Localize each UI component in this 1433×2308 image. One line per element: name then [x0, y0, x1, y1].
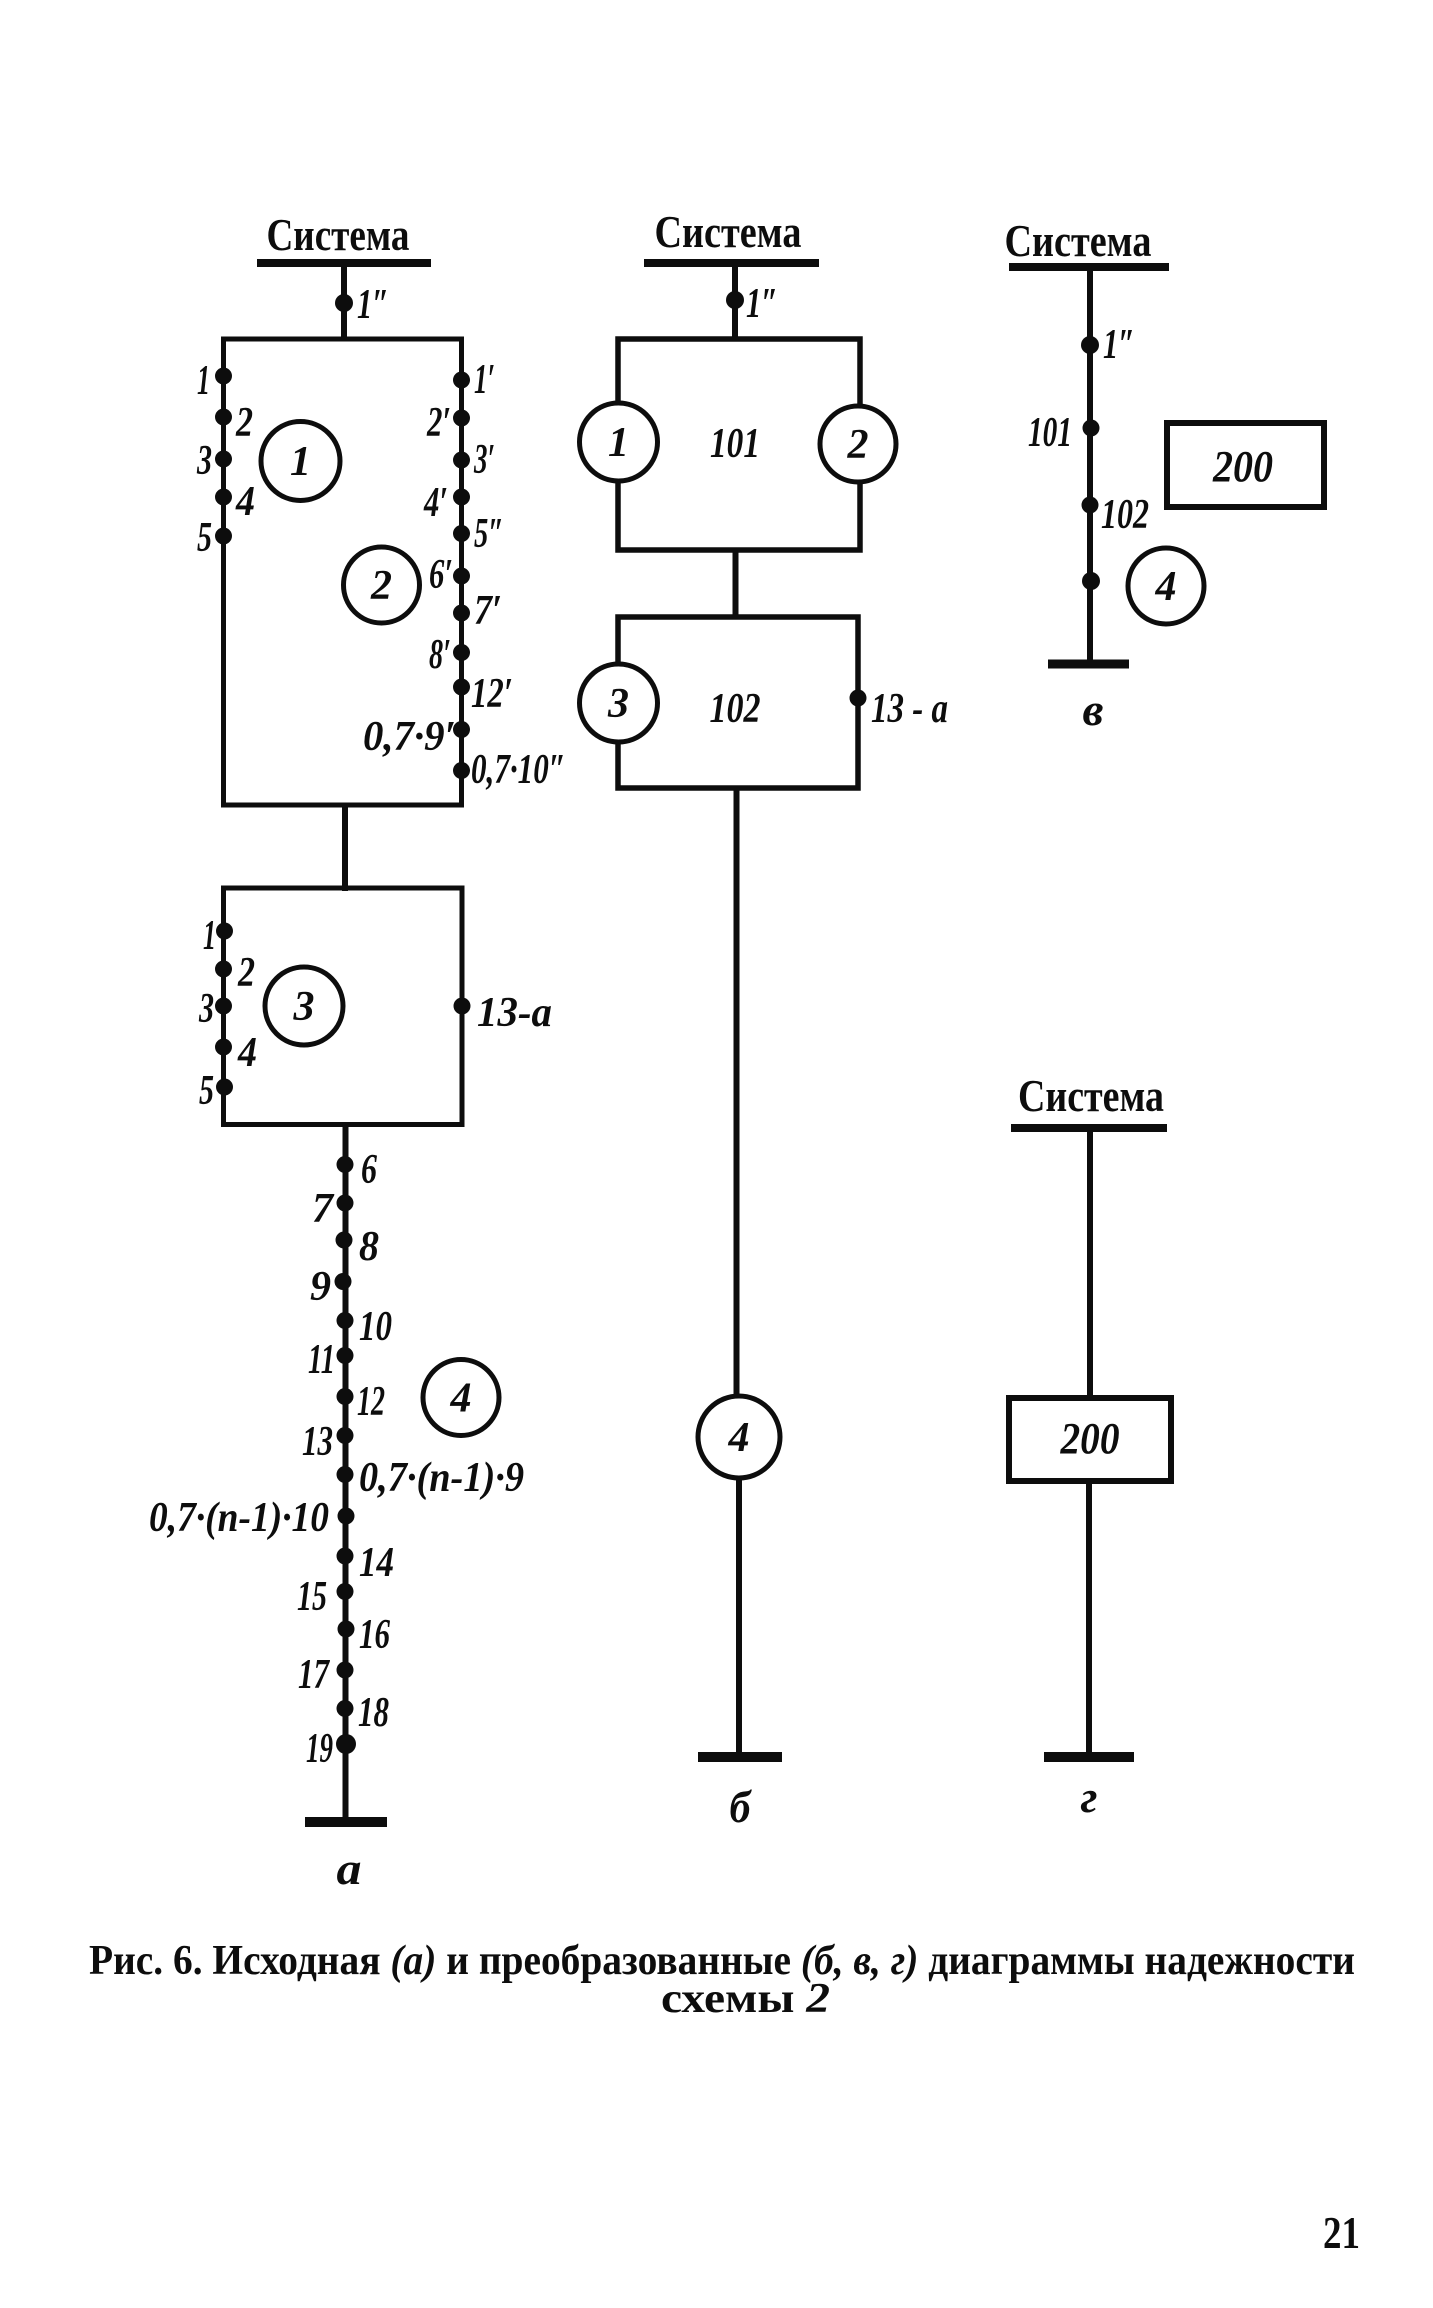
- circle 4 (б): [698, 1396, 780, 1478]
- node at circle 4 (в): [1082, 572, 1100, 590]
- node 3 left (а): [196, 438, 232, 484]
- block 200 box (г): [1009, 1398, 1171, 1481]
- wire upper block to lower block (а): [342, 805, 348, 891]
- svg-text:4: 4: [1155, 564, 1177, 610]
- svg-text:18: 18: [358, 1690, 389, 1736]
- node 1″ (б): [726, 281, 778, 327]
- ground (г): [1044, 1752, 1134, 1762]
- ground (в): [1048, 660, 1129, 669]
- circle 3 (б): [580, 664, 658, 742]
- svg-text:102: 102: [710, 686, 761, 732]
- node 7′ (а): [453, 588, 502, 634]
- svg-text:схемы 2: схемы 2: [661, 1976, 830, 2022]
- svg-text:4: 4: [237, 1030, 257, 1076]
- node 0,7·10″ (а): [453, 747, 566, 793]
- svg-text:0,7·(n-1)·10: 0,7·(n-1)·10: [149, 1495, 329, 1541]
- svg-text:200: 200: [1212, 442, 1273, 491]
- node 17 (а): [298, 1652, 354, 1698]
- svg-text:200: 200: [1060, 1414, 1120, 1463]
- wire bus to ground (в): [1087, 267, 1093, 664]
- node 8 (а): [336, 1224, 380, 1270]
- node 5″ (а): [453, 511, 504, 557]
- node 1 lower left (а): [203, 913, 233, 959]
- svg-text:Система: Система: [267, 210, 410, 260]
- node 6′ (а): [429, 552, 470, 598]
- svg-text:101: 101: [1028, 410, 1072, 456]
- svg-text:Система: Система: [1018, 1071, 1164, 1121]
- node 13-а (а): [454, 990, 553, 1036]
- svg-text:4′: 4′: [423, 480, 448, 526]
- node 5 left (а): [197, 515, 232, 561]
- node 13-а (б): [850, 686, 949, 732]
- wire circle 4 to ground (б): [736, 1477, 742, 1757]
- svg-text:4: 4: [235, 479, 255, 525]
- svg-text:1″: 1″: [1103, 322, 1135, 368]
- busbar Система (diagram г): [1011, 1124, 1167, 1132]
- node 0,7·(n-1)·10 (а): [149, 1495, 355, 1541]
- svg-text:1′: 1′: [474, 357, 495, 403]
- node 1 left (а): [197, 358, 232, 404]
- svg-text:101: 101: [710, 421, 760, 467]
- lower block box (а): [224, 888, 463, 1125]
- wire block 200 to ground (г): [1086, 1481, 1092, 1757]
- svg-text:11: 11: [308, 1337, 335, 1383]
- node 4 lower left (а): [215, 1030, 257, 1076]
- node 9 (а): [310, 1264, 352, 1310]
- node 8′ (а): [429, 632, 470, 678]
- svg-text:17: 17: [298, 1652, 330, 1698]
- svg-text:3: 3: [293, 984, 315, 1030]
- svg-text:Система: Система: [655, 207, 802, 257]
- svg-text:6: 6: [361, 1147, 377, 1193]
- node 3 lower left (а): [198, 986, 232, 1032]
- upper block box (а): [224, 339, 462, 805]
- svg-text:16: 16: [359, 1612, 390, 1658]
- ground (б): [698, 1752, 782, 1762]
- svg-text:3′: 3′: [473, 437, 495, 483]
- svg-text:13-а: 13-а: [477, 990, 552, 1036]
- svg-text:2: 2: [370, 563, 392, 609]
- svg-text:1: 1: [203, 913, 216, 959]
- svg-text:13 - а: 13 - а: [871, 686, 948, 732]
- node 12′ (а): [453, 671, 513, 717]
- node 12 (а): [337, 1379, 386, 1425]
- node 101 (в): [1028, 410, 1100, 456]
- svg-text:8′: 8′: [429, 632, 451, 678]
- node 3′ (а): [453, 437, 495, 483]
- node 2 lower left (а): [215, 950, 255, 996]
- svg-text:8: 8: [359, 1224, 379, 1270]
- svg-text:9: 9: [310, 1264, 331, 1310]
- node 0,7·9′ (а): [363, 714, 470, 760]
- busbar Система (diagram б): [644, 259, 819, 267]
- node 10 (а): [337, 1304, 393, 1350]
- node 2′ (а): [426, 400, 470, 446]
- svg-text:7: 7: [312, 1186, 335, 1232]
- wire bus to block 101 (б): [732, 263, 738, 341]
- svg-text:12′: 12′: [471, 671, 513, 717]
- svg-text:5: 5: [199, 1068, 214, 1114]
- circle 2 (а): [344, 547, 420, 623]
- svg-text:1″: 1″: [357, 282, 389, 328]
- svg-text:3: 3: [198, 986, 214, 1032]
- wire bus to block 200 (г): [1087, 1128, 1093, 1400]
- svg-text:3: 3: [196, 438, 212, 484]
- svg-text:19: 19: [306, 1726, 333, 1772]
- svg-text:12: 12: [357, 1379, 385, 1425]
- svg-text:0,7·10″: 0,7·10″: [471, 747, 566, 793]
- svg-text:2: 2: [237, 950, 255, 996]
- svg-text:7′: 7′: [474, 588, 502, 634]
- svg-text:1″: 1″: [746, 281, 778, 327]
- svg-text:1: 1: [197, 358, 210, 404]
- circle 3 (а): [265, 967, 343, 1045]
- node 4′ (а): [423, 480, 470, 526]
- svg-text:0,7·(n-1)·9: 0,7·(n-1)·9: [359, 1455, 524, 1501]
- block 101 box (б): [618, 339, 860, 550]
- circle 1 (б): [580, 403, 658, 481]
- wire block 102 to circle 4 (б): [734, 788, 740, 1399]
- svg-text:1: 1: [608, 420, 629, 466]
- node 16 (а): [338, 1612, 391, 1658]
- circle 1 (а): [261, 422, 340, 501]
- svg-text:2′: 2′: [426, 400, 451, 446]
- svg-text:10: 10: [359, 1304, 392, 1350]
- svg-text:14: 14: [359, 1540, 394, 1586]
- node 102 (в): [1082, 492, 1150, 538]
- svg-text:21: 21: [1323, 2207, 1360, 2258]
- node 7 (а): [312, 1186, 354, 1232]
- node 1″ (в): [1081, 322, 1135, 368]
- svg-text:3: 3: [607, 681, 629, 727]
- block 102 box (б): [618, 617, 858, 788]
- svg-text:4: 4: [728, 1415, 750, 1461]
- svg-text:102: 102: [1101, 492, 1149, 538]
- node 11 (а): [308, 1337, 354, 1383]
- busbar Система (diagram а): [257, 259, 431, 267]
- node 4 left (а): [215, 479, 255, 525]
- node 14 (а): [337, 1540, 395, 1586]
- block 200 box (в): [1167, 423, 1324, 507]
- svg-text:г: г: [1081, 1771, 1098, 1822]
- node 18 (а): [337, 1690, 390, 1736]
- svg-text:а: а: [337, 1843, 362, 1894]
- node 6 (а): [337, 1147, 378, 1193]
- svg-text:0,7·9′: 0,7·9′: [363, 714, 456, 760]
- node 19 (а): [306, 1726, 356, 1772]
- circle 2 (б): [820, 406, 896, 482]
- svg-text:2: 2: [235, 400, 253, 446]
- svg-text:5: 5: [197, 515, 212, 561]
- wire lower block to ground (а): [343, 1125, 349, 1823]
- svg-text:15: 15: [297, 1574, 327, 1620]
- svg-text:в: в: [1083, 684, 1104, 735]
- node 2 left (а): [215, 400, 253, 446]
- svg-text:4: 4: [450, 1376, 472, 1422]
- circle 4 (а): [423, 1360, 499, 1436]
- node 1″ (а): [335, 282, 389, 328]
- node 0,7·(n-1)·9 (а): [337, 1455, 525, 1501]
- svg-text:1: 1: [290, 439, 311, 485]
- svg-text:5″: 5″: [474, 511, 504, 557]
- node 13 (а): [302, 1419, 354, 1465]
- node 15 (а): [297, 1574, 354, 1620]
- circle 4 (в): [1128, 548, 1204, 624]
- wire bus to upper block (а): [341, 263, 347, 341]
- busbar Система (diagram в): [1009, 263, 1169, 271]
- svg-text:13: 13: [302, 1419, 333, 1465]
- ground (а): [305, 1817, 387, 1827]
- node 5 lower left (а): [199, 1068, 233, 1114]
- svg-text:6′: 6′: [429, 552, 453, 598]
- node 1′ (а): [453, 357, 495, 403]
- svg-text:б: б: [730, 1781, 753, 1832]
- svg-text:2: 2: [847, 422, 869, 468]
- wire block 101 to block 102 (б): [733, 550, 739, 619]
- svg-text:Система: Система: [1005, 216, 1152, 266]
